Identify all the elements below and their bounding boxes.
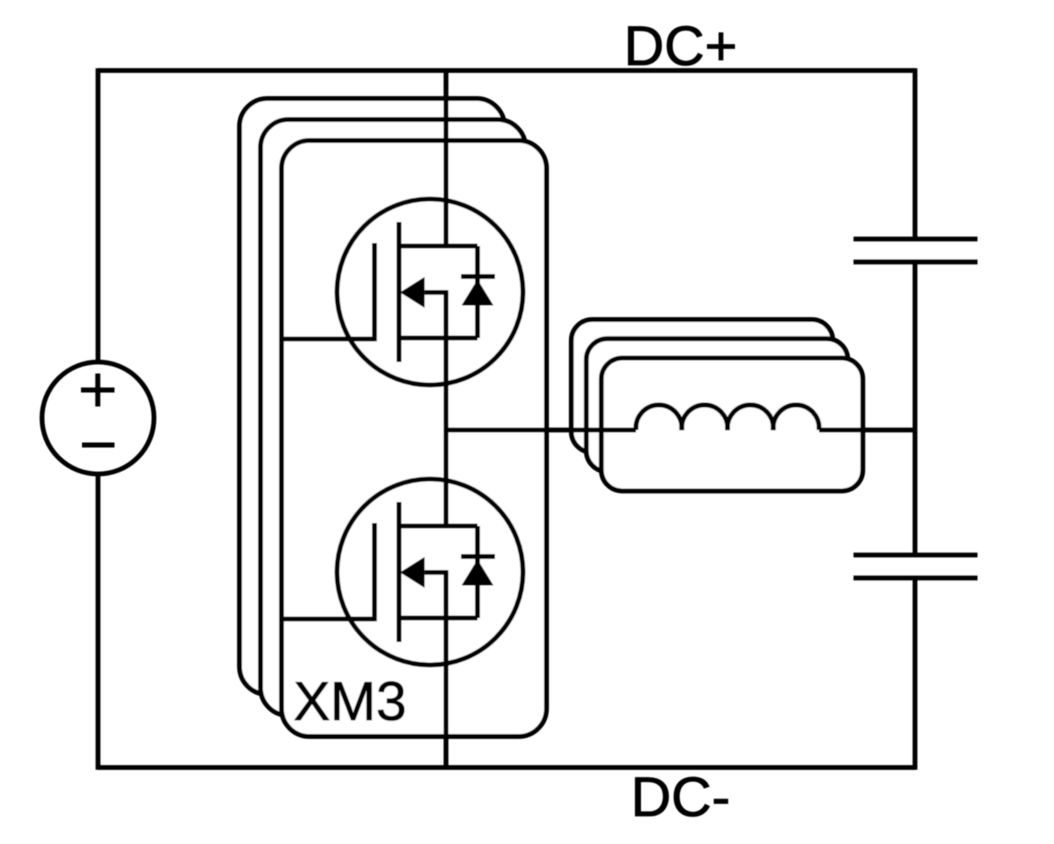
Q2 body circle	[337, 479, 523, 665]
Q2 channel bar	[397, 502, 402, 642]
Q2 gate electrode	[372, 523, 377, 621]
wire: phase leg vertical, Q1 source to Q2 drain (midpoint node)	[444, 292, 449, 526]
Q2 body arrow tail	[425, 570, 449, 575]
Q1 gate electrode	[372, 243, 377, 341]
wire: inductor to right rail	[819, 428, 915, 433]
transistor Q2 (lower MOSFET)	[282, 479, 524, 665]
voltage source V1 plus sign	[81, 374, 115, 407]
Q2 gate lead	[282, 617, 375, 622]
Q1 body circle	[337, 199, 523, 385]
voltage source V1 minus sign	[82, 443, 115, 448]
wire: midpoint node to inductor	[446, 428, 636, 433]
Q1 channel bar	[397, 222, 402, 362]
wire: right rail upper segment (DC+ to C1)	[913, 68, 918, 239]
wire: right rail lower segment (C2 to DC-)	[913, 578, 918, 770]
wire: top rail (DC+)	[98, 68, 915, 73]
inductor L1 coil	[636, 405, 819, 430]
Q1 body diode cathode bar	[461, 274, 495, 279]
inductor module back outline	[571, 320, 833, 453]
capacitor C1 bottom plate	[854, 260, 978, 265]
module XM3 middle outline	[261, 120, 526, 716]
Q2 body diode cathode bar	[461, 554, 495, 559]
Q1 body diode branch wire	[475, 246, 480, 338]
capacitor C2 bottom plate	[854, 576, 978, 581]
transistor Q1 (upper MOSFET)	[282, 199, 524, 385]
wire: phase leg vertical, DC+ to Q1 drain	[444, 71, 449, 247]
wire: right rail middle segment (C1 to C2)	[913, 262, 918, 555]
svg-text:DC+: DC+	[624, 14, 738, 77]
Q2 source/body bar	[399, 616, 478, 621]
Q2 drain bar	[399, 524, 478, 529]
inductor module middle outline	[586, 339, 848, 472]
Q2 body arrow head	[400, 557, 425, 588]
Q1 gate lead	[282, 337, 375, 342]
Q1 body arrow tail	[425, 290, 449, 295]
Q2 body diode branch wire	[475, 526, 480, 618]
Q1 body arrow head	[400, 277, 425, 308]
wire: left rail lower segment (source - to DC-)	[96, 474, 101, 770]
capacitor C2 top plate	[854, 553, 978, 558]
voltage source V1 circle	[42, 362, 154, 474]
svg-text:XM3: XM3	[293, 670, 406, 732]
Q1 drain bar	[399, 244, 478, 249]
wire: bottom rail (DC-)	[98, 765, 915, 770]
wire: phase leg vertical, Q2 source to DC-	[444, 572, 449, 767]
Q2 body diode anode triangle	[462, 560, 494, 586]
capacitor C1 top plate	[854, 237, 978, 242]
Q1 source/body bar	[399, 336, 478, 341]
inductor module front outline	[601, 358, 863, 491]
svg-text:DC-: DC-	[631, 765, 731, 828]
Q1 body diode anode triangle	[462, 280, 494, 306]
module XM3 back outline	[240, 99, 505, 695]
module XM3 front outline	[282, 141, 547, 737]
wire: left rail upper segment (source + to DC+)	[96, 68, 101, 362]
